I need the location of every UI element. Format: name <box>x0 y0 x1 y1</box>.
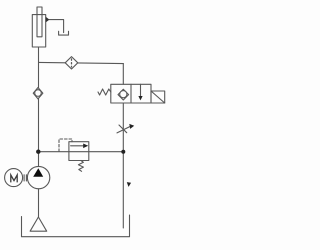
filter F1 <box>65 57 78 69</box>
suction strainer triangle <box>30 217 47 231</box>
wire valve outlet / return line <box>122 103 124 228</box>
cylinder C1 plunger rod <box>37 7 42 37</box>
shaft coupling <box>24 175 26 181</box>
pump P1 <box>27 166 49 188</box>
relief valve V4 internal arrow <box>71 145 84 147</box>
check valve V1 <box>33 88 43 99</box>
pump P1 flow triangle <box>33 168 43 177</box>
wire drain line <box>49 20 63 33</box>
solenoid valve V2 position divider <box>130 84 132 103</box>
wire left vertical supply line <box>38 47 40 167</box>
relief valve V4 body <box>69 142 89 161</box>
wire pump suction line <box>38 189 40 217</box>
relief valve V4 spring <box>78 161 83 172</box>
electric motor M1 <box>5 169 23 187</box>
junction node A (left) <box>36 150 40 154</box>
cylinder C1 body <box>32 15 45 47</box>
relief valve V4 pilot line (dashed) <box>59 139 72 152</box>
solenoid valve V2 check position (diamond + ball) <box>118 89 129 100</box>
wire relief branch line <box>38 151 123 153</box>
cylinder drain arrow <box>46 17 50 23</box>
flow direction arrow on return line <box>127 182 131 187</box>
solenoid valve V2 return spring <box>98 89 111 95</box>
throttle valve V3 (adjustable restrictor) <box>117 124 134 133</box>
tank T1 <box>22 215 130 237</box>
wire valve supply drop <box>122 64 124 85</box>
junction node B (right) <box>121 150 125 154</box>
vented reservoir (drain tank) <box>59 31 69 35</box>
solenoid valve V2 body <box>111 84 151 103</box>
wire top branch line <box>39 62 124 63</box>
motor label M <box>11 175 17 182</box>
solenoid valve V2 solenoid coil <box>151 91 165 103</box>
solenoid valve V2 flow position arrow <box>140 84 142 96</box>
